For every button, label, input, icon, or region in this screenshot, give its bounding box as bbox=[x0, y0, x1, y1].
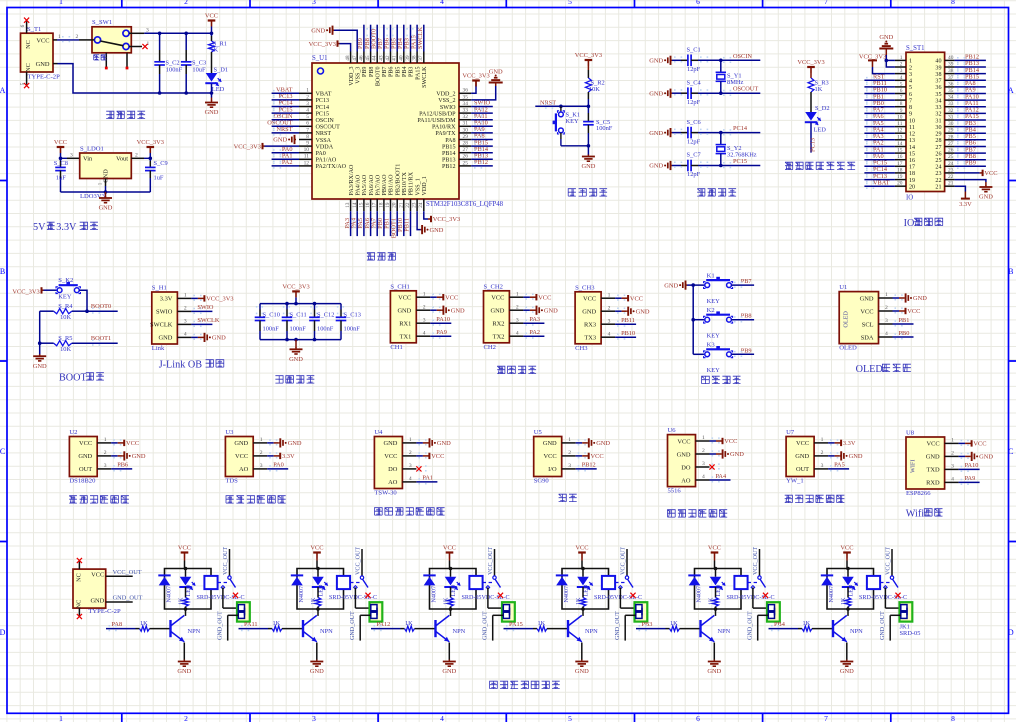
LED S_D1 bbox=[205, 66, 228, 93]
junction filter rail a bbox=[285, 302, 289, 306]
net PB0 U1 pin4 bbox=[893, 330, 914, 337]
LED relay PA11 bbox=[312, 569, 328, 597]
svg-text:PA1: PA1 bbox=[422, 475, 433, 482]
ground U2 pin2 bbox=[111, 451, 146, 460]
svg-text:32: 32 bbox=[463, 114, 469, 120]
svg-text:NC: NC bbox=[76, 600, 83, 609]
net PA6 U1 bottom pin 16 bbox=[364, 211, 371, 236]
svg-text:22: 22 bbox=[935, 178, 941, 184]
svg-text:S_C11: S_C11 bbox=[290, 311, 307, 318]
svg-text:OSCOUT: OSCOUT bbox=[316, 125, 341, 131]
svg-text:LED: LED bbox=[584, 584, 590, 596]
wire relay loop PB3 bbox=[695, 569, 742, 610]
net PA1 ST1 pin 15 bbox=[864, 146, 895, 155]
svg-text:2: 2 bbox=[608, 305, 611, 311]
caption 水质检测模块 bbox=[226, 495, 234, 503]
net PB1 ST1 pin 7 bbox=[864, 93, 895, 102]
svg-text:PB6: PB6 bbox=[389, 67, 395, 78]
svg-text:1: 1 bbox=[423, 291, 426, 297]
svg-text:16: 16 bbox=[897, 154, 903, 160]
ground power GND bbox=[211, 101, 213, 103]
svg-text:8: 8 bbox=[306, 134, 309, 140]
relay coil SRD-05VDC-SL-C PA12 bbox=[462, 576, 510, 601]
svg-text:GND_OUT: GND_OUT bbox=[483, 611, 489, 640]
key K1 KEY bbox=[704, 272, 733, 304]
svg-text:S_C9: S_C9 bbox=[154, 160, 168, 167]
svg-text:KEY: KEY bbox=[58, 293, 72, 300]
svg-text:TX2: TX2 bbox=[493, 334, 505, 341]
svg-text:GND: GND bbox=[707, 668, 721, 675]
svg-text:5516: 5516 bbox=[668, 488, 682, 495]
caption 继电器控制电路 bbox=[490, 681, 498, 689]
svg-text:25: 25 bbox=[948, 154, 954, 160]
regulator S_LDO1 LDO3V3 bbox=[80, 146, 132, 200]
ground U8 pin2 bbox=[959, 452, 994, 461]
svg-text:Vout: Vout bbox=[116, 156, 128, 163]
svg-text:46: 46 bbox=[358, 55, 364, 61]
resistor 1K LED PA11 bbox=[311, 587, 321, 609]
svg-text:PB6: PB6 bbox=[117, 462, 128, 469]
net PA3 U1 bottom pin 13 bbox=[344, 211, 351, 236]
svg-text:36: 36 bbox=[463, 88, 469, 94]
svg-text:GND: GND bbox=[384, 440, 398, 447]
svg-text:PA2: PA2 bbox=[282, 159, 293, 166]
svg-text:S_H1: S_H1 bbox=[152, 285, 167, 292]
junction VCC rail R1 bbox=[210, 32, 214, 36]
svg-text:S_C10: S_C10 bbox=[263, 311, 280, 318]
junction filter rail c bbox=[294, 302, 298, 306]
LED S_D2 bbox=[805, 105, 830, 134]
svg-text:PA1/AO: PA1/AO bbox=[316, 158, 337, 164]
resistor S_R5 10K bbox=[40, 335, 73, 353]
svg-text:3: 3 bbox=[184, 319, 187, 325]
svg-text:11: 11 bbox=[909, 125, 915, 131]
power VCC_3V3 U1 VDD_1 bbox=[424, 211, 460, 223]
svg-text:1: 1 bbox=[58, 34, 61, 40]
net PB11 S_CH3 pin3 bbox=[615, 317, 636, 324]
svg-text:PA9: PA9 bbox=[436, 329, 447, 336]
net PB9 ST1 pin 24 bbox=[955, 160, 986, 169]
net PA2 ST1 pin 14 bbox=[864, 140, 895, 149]
caption 舵机 bbox=[559, 494, 567, 502]
resistor 1K LED PA12 bbox=[444, 587, 454, 609]
svg-text:5: 5 bbox=[909, 85, 912, 91]
net PA7 ST1 pin 9 bbox=[864, 107, 895, 116]
svg-text:27: 27 bbox=[948, 141, 954, 147]
svg-text:100nF: 100nF bbox=[596, 125, 613, 132]
net PC13 ST1 pin 19 bbox=[864, 173, 895, 182]
net PC13 indicator bbox=[810, 123, 817, 153]
svg-text:31: 31 bbox=[935, 118, 941, 124]
svg-text:1: 1 bbox=[900, 55, 903, 61]
svg-text:4: 4 bbox=[702, 474, 705, 480]
ground S_CH3 pin2 bbox=[615, 307, 650, 316]
svg-text:U4: U4 bbox=[374, 429, 383, 436]
power VCC relay PB3 bbox=[708, 545, 721, 569]
net PA2 S_CH2 pin4 bbox=[523, 329, 544, 336]
net PA15 ST1 pin 31 bbox=[955, 113, 986, 122]
svg-text:GND: GND bbox=[730, 451, 744, 458]
power 3.3V U3 pin2 bbox=[267, 453, 295, 460]
svg-text:1: 1 bbox=[260, 437, 263, 443]
svg-text:PA8: PA8 bbox=[112, 621, 123, 628]
power VCC relay PA12 bbox=[443, 545, 456, 569]
junction LDO Vin bbox=[59, 157, 63, 161]
svg-text:GND: GND bbox=[437, 440, 451, 447]
svg-text:PB4: PB4 bbox=[774, 621, 786, 628]
relay contact PB3 bbox=[748, 547, 766, 590]
svg-text:1K: 1K bbox=[140, 620, 148, 627]
junction C5 bottom bbox=[587, 144, 591, 148]
wire filter bottom rail bbox=[260, 339, 341, 341]
svg-text:PA11/USB/DM: PA11/USB/DM bbox=[417, 118, 456, 124]
relay contact PB4 bbox=[880, 547, 898, 590]
svg-text:3: 3 bbox=[409, 463, 412, 469]
net GND_OUT wire PA15 bbox=[615, 611, 636, 641]
net BOOT1 bbox=[72, 335, 118, 345]
net GND_OUT wire PA11 bbox=[350, 611, 371, 641]
caption 滤波电路 bbox=[275, 375, 283, 383]
transistor NPN PA15 bbox=[568, 609, 598, 642]
svg-text:1K: 1K bbox=[179, 597, 185, 605]
svg-text:LED: LED bbox=[716, 584, 722, 596]
svg-text:GND_OUT: GND_OUT bbox=[218, 611, 224, 640]
svg-text:PB14: PB14 bbox=[442, 151, 456, 157]
svg-text:LED: LED bbox=[319, 584, 325, 596]
net PA6 ST1 pin 10 bbox=[864, 113, 895, 122]
svg-text:4: 4 bbox=[440, 0, 444, 6]
svg-text:6: 6 bbox=[900, 88, 903, 94]
ground relay PA11 bbox=[316, 660, 318, 662]
svg-text:J-Link OB: J-Link OB bbox=[159, 360, 203, 371]
svg-text:GND: GND bbox=[288, 440, 302, 447]
svg-text:1K: 1K bbox=[444, 597, 450, 605]
svg-text:PB11: PB11 bbox=[404, 218, 411, 232]
svg-text:PB8: PB8 bbox=[369, 67, 375, 78]
svg-text:VCC: VCC bbox=[36, 37, 49, 44]
caption 浑浊度检测模块 bbox=[375, 507, 383, 515]
junction PC14 bbox=[719, 131, 723, 135]
power VCC_3V3 U1 VDD_2 bbox=[462, 73, 489, 94]
caption 程序运行指示灯 bbox=[785, 162, 793, 170]
svg-text:3.3V: 3.3V bbox=[56, 222, 77, 233]
svg-text:17: 17 bbox=[372, 202, 378, 208]
svg-text:1: 1 bbox=[909, 59, 912, 65]
svg-text:34: 34 bbox=[935, 98, 941, 104]
svg-text:23: 23 bbox=[935, 171, 941, 177]
net PB8 key K2 bbox=[731, 313, 754, 322]
resistor S_R2 10K bbox=[586, 70, 605, 106]
svg-text:3.3V: 3.3V bbox=[282, 453, 295, 460]
net PA4 ST1 pin 12 bbox=[864, 126, 895, 135]
no-connect T1 top pin bbox=[24, 18, 29, 23]
label JK1 SRD-05 bbox=[900, 624, 921, 638]
wire relay loop PA8 bbox=[165, 569, 212, 610]
svg-text:VCC: VCC bbox=[575, 545, 588, 552]
svg-text:PB9: PB9 bbox=[741, 347, 752, 354]
svg-text:LED: LED bbox=[849, 584, 855, 596]
svg-text:34: 34 bbox=[948, 95, 954, 101]
svg-text:5V: 5V bbox=[33, 222, 46, 233]
svg-text:NPN: NPN bbox=[585, 628, 598, 635]
net VBAT ST1 pin 20 bbox=[864, 179, 895, 188]
net PB1 U1 pin3 bbox=[893, 317, 914, 324]
svg-text:22: 22 bbox=[948, 174, 954, 180]
svg-text:OUT: OUT bbox=[79, 466, 92, 473]
svg-text:1: 1 bbox=[59, 0, 63, 6]
wire LDO GND stem bbox=[105, 186, 107, 192]
svg-text:3: 3 bbox=[909, 72, 912, 78]
net PC13 U1 left pin 2 bbox=[272, 93, 299, 102]
junction C3 bottom bbox=[184, 91, 188, 95]
svg-text:KEY: KEY bbox=[707, 332, 721, 339]
svg-text:2: 2 bbox=[568, 450, 571, 456]
svg-text:A: A bbox=[0, 86, 6, 95]
svg-text:PB2/BOOT1: PB2/BOOT1 bbox=[395, 164, 401, 196]
svg-text:16: 16 bbox=[365, 202, 371, 208]
svg-text:45: 45 bbox=[365, 55, 371, 61]
power 3.3V ST1 pin21 bbox=[955, 186, 972, 208]
svg-text:19: 19 bbox=[909, 178, 915, 184]
key S_K2 KEY bbox=[56, 277, 87, 311]
net OSCOUT bbox=[721, 86, 761, 96]
svg-text:PB7: PB7 bbox=[741, 278, 752, 285]
net PB12 U5 pin3 bbox=[576, 462, 597, 469]
svg-text:2: 2 bbox=[184, 306, 187, 312]
resistor S_R1 1K bbox=[209, 33, 227, 73]
net OSCIN U1 left pin 5 bbox=[272, 113, 299, 122]
svg-text:NC: NC bbox=[25, 63, 32, 72]
svg-text:GND: GND bbox=[649, 130, 663, 137]
net BOOT0 bbox=[87, 303, 118, 313]
svg-text:PC14: PC14 bbox=[316, 105, 330, 111]
svg-text:PB10: PB10 bbox=[621, 330, 635, 337]
svg-text:GND: GND bbox=[677, 451, 691, 458]
svg-text:1K: 1K bbox=[815, 86, 823, 93]
net PA4 U1 bottom pin 14 bbox=[350, 211, 359, 236]
svg-text:VDD_3: VDD_3 bbox=[349, 67, 355, 86]
caption 串口电路 bbox=[497, 366, 505, 374]
svg-text:6: 6 bbox=[909, 92, 912, 98]
junction relay bottom rail PB3 bbox=[714, 607, 718, 611]
svg-text:S_C6: S_C6 bbox=[687, 119, 701, 126]
svg-text:GND: GND bbox=[397, 308, 411, 315]
svg-text:SDA: SDA bbox=[861, 334, 874, 341]
wire emitter to ground PA12 bbox=[448, 643, 450, 661]
capacitor S_C9 1uF bbox=[145, 158, 168, 192]
diode N4007 flyback PB4 bbox=[821, 575, 835, 602]
svg-text:VCC: VCC bbox=[984, 170, 997, 177]
svg-text:VCC: VCC bbox=[91, 572, 104, 579]
svg-text:13: 13 bbox=[909, 138, 915, 144]
svg-text:PB11/RX: PB11/RX bbox=[409, 171, 415, 195]
svg-text:U5: U5 bbox=[534, 429, 543, 436]
junction NRST cap bbox=[587, 105, 591, 109]
net PA10 ST1 pin 34 bbox=[955, 93, 986, 102]
ground U7 pin2 bbox=[828, 451, 863, 460]
svg-text:VCC: VCC bbox=[907, 308, 920, 315]
svg-text:25: 25 bbox=[935, 158, 941, 164]
crystal S_Y1 8MHz bbox=[716, 60, 744, 93]
svg-text:5: 5 bbox=[568, 714, 572, 722]
svg-text:NPN: NPN bbox=[718, 628, 731, 635]
svg-text:3: 3 bbox=[951, 464, 954, 470]
svg-text:NRST: NRST bbox=[276, 126, 292, 133]
svg-text:15: 15 bbox=[909, 151, 915, 157]
svg-text:2: 2 bbox=[885, 305, 888, 311]
svg-text:11: 11 bbox=[897, 121, 902, 127]
svg-text:PA12: PA12 bbox=[377, 621, 391, 628]
svg-text:3: 3 bbox=[312, 0, 316, 6]
net GND_OUT T2 bbox=[106, 595, 143, 603]
wire relay NC to connector PB3 bbox=[753, 587, 768, 608]
svg-text:48: 48 bbox=[345, 55, 351, 61]
svg-text:3: 3 bbox=[885, 318, 888, 324]
relay contact PA11 bbox=[350, 547, 368, 590]
junction keys rail K2 bbox=[691, 318, 695, 322]
transistor NPN PB4 bbox=[833, 609, 863, 642]
svg-text:8MHz: 8MHz bbox=[727, 79, 743, 86]
svg-text:23: 23 bbox=[412, 202, 418, 208]
svg-text:32: 32 bbox=[935, 112, 941, 118]
svg-text:1: 1 bbox=[951, 438, 954, 444]
net PB6 U2 pin3 bbox=[111, 462, 132, 469]
svg-text:SWCLK: SWCLK bbox=[150, 322, 173, 329]
svg-text:3: 3 bbox=[423, 317, 426, 323]
svg-text:B: B bbox=[0, 267, 5, 276]
net PA11 input bbox=[239, 621, 273, 630]
svg-text:VCC_OUT: VCC_OUT bbox=[113, 569, 142, 576]
svg-text:1: 1 bbox=[98, 182, 104, 185]
svg-text:2: 2 bbox=[516, 304, 519, 310]
svg-text:VCC_3V3: VCC_3V3 bbox=[462, 73, 489, 80]
svg-text:13: 13 bbox=[897, 134, 903, 140]
svg-text:GND: GND bbox=[840, 668, 854, 675]
wire relay NC to connector PA11 bbox=[355, 587, 370, 608]
svg-text:3: 3 bbox=[516, 317, 519, 323]
net PB8 U1 top pin 45 bbox=[364, 25, 373, 52]
svg-text:N4007: N4007 bbox=[564, 586, 570, 603]
caption 按键电路 bbox=[702, 376, 710, 384]
power VCC relay PA11 bbox=[310, 545, 323, 569]
svg-text:1: 1 bbox=[568, 437, 571, 443]
svg-text:VDD_2: VDD_2 bbox=[436, 92, 455, 98]
module S_H1 Link bbox=[150, 285, 203, 353]
net PC15 bbox=[721, 158, 761, 168]
svg-text:S_C12: S_C12 bbox=[317, 311, 334, 318]
svg-text:1K: 1K bbox=[210, 46, 218, 53]
svg-text:PA2/TX/AO: PA2/TX/AO bbox=[316, 164, 347, 170]
svg-text:S_U1: S_U1 bbox=[312, 55, 328, 62]
LED relay PA12 bbox=[444, 569, 460, 597]
svg-text:VCC: VCC bbox=[445, 294, 458, 301]
svg-text:2: 2 bbox=[821, 450, 824, 456]
net PA0 U3 pin3 bbox=[267, 462, 288, 469]
svg-text:12pF: 12pF bbox=[687, 99, 701, 106]
resistor 1K LED PA15 bbox=[576, 587, 586, 609]
svg-text:43: 43 bbox=[378, 55, 384, 61]
svg-text:STM32F103C8T6_LQFP48: STM32F103C8T6_LQFP48 bbox=[426, 201, 504, 208]
svg-text:GND: GND bbox=[649, 90, 663, 97]
svg-text:1K: 1K bbox=[311, 597, 317, 605]
no-connect T2 top bbox=[77, 558, 82, 563]
svg-text:TYPE-C-2P: TYPE-C-2P bbox=[28, 73, 61, 80]
svg-text:PB13: PB13 bbox=[442, 158, 456, 164]
svg-text:1: 1 bbox=[409, 437, 412, 443]
junction relay top rail PB3 bbox=[714, 567, 718, 571]
svg-text:VCC_3V3: VCC_3V3 bbox=[137, 139, 164, 146]
resistor 1K LED PB3 bbox=[709, 587, 719, 609]
svg-text:K3: K3 bbox=[707, 342, 716, 349]
svg-text:1K: 1K bbox=[538, 620, 546, 627]
resistor 1K base PA12 bbox=[405, 620, 436, 631]
svg-text:TSW-30: TSW-30 bbox=[374, 490, 397, 497]
svg-text:SWCLK: SWCLK bbox=[417, 27, 424, 49]
net PB4 ST1 pin 29 bbox=[955, 126, 986, 135]
svg-text:GND: GND bbox=[311, 27, 325, 34]
svg-text:12: 12 bbox=[304, 160, 310, 166]
svg-text:S_CH1: S_CH1 bbox=[390, 283, 409, 290]
svg-text:TYPE-C-2P: TYPE-C-2P bbox=[88, 608, 121, 615]
power VCC relay PA15 bbox=[575, 545, 588, 569]
svg-text:VCC: VCC bbox=[973, 441, 986, 448]
svg-text:OSCIN: OSCIN bbox=[316, 118, 335, 124]
svg-text:32.768KHz: 32.768KHz bbox=[727, 151, 757, 158]
svg-text:NPN: NPN bbox=[453, 628, 466, 635]
svg-text:GND: GND bbox=[491, 308, 505, 315]
svg-text:3.3V: 3.3V bbox=[959, 201, 972, 208]
resistor 1K LED PB4 bbox=[841, 587, 851, 609]
net PB7 key K1 bbox=[731, 278, 754, 287]
svg-text:2: 2 bbox=[104, 450, 107, 456]
net OSCIN bbox=[721, 53, 761, 63]
net PB5 ST1 pin 28 bbox=[955, 133, 986, 142]
net PB15 U1 right pin 28 bbox=[471, 139, 493, 148]
svg-text:3: 3 bbox=[702, 461, 705, 467]
junction OSCIN bbox=[719, 59, 723, 63]
ground relay PA12 bbox=[448, 660, 450, 662]
svg-text:26: 26 bbox=[935, 151, 941, 157]
net RST ST1 pin 4 bbox=[864, 74, 895, 83]
svg-text:17: 17 bbox=[909, 165, 915, 171]
svg-text:AO: AO bbox=[681, 477, 691, 484]
header S_ST1 IO bbox=[895, 45, 955, 202]
switch S_SW1 bbox=[79, 19, 150, 67]
net PA2 U1 left pin 12 bbox=[272, 159, 299, 168]
svg-text:21: 21 bbox=[948, 181, 954, 187]
svg-text:PB12: PB12 bbox=[582, 462, 596, 469]
svg-text:24: 24 bbox=[935, 165, 941, 171]
net PA1 U1 left pin 11 bbox=[272, 153, 299, 162]
ground U5 pin1 bbox=[576, 438, 611, 447]
power 3.3V U7 pin1 bbox=[828, 440, 856, 447]
svg-text:3: 3 bbox=[104, 463, 107, 469]
resistor 1K base PA8 bbox=[140, 620, 171, 631]
ground S_H1 pin4 bbox=[191, 333, 226, 342]
svg-text:100nF: 100nF bbox=[317, 326, 334, 333]
svg-text:VCC: VCC bbox=[677, 438, 690, 445]
wire filter top rail bbox=[260, 303, 341, 305]
svg-text:29: 29 bbox=[463, 134, 469, 140]
relay coil SRD-05VDC-SL-C PB3 bbox=[727, 576, 775, 601]
svg-text:VCC: VCC bbox=[235, 453, 248, 460]
junction LDO Vout bbox=[149, 157, 153, 161]
wire T1.GND down to rail bbox=[53, 64, 212, 93]
capacitor S_C13 100nF bbox=[336, 304, 361, 340]
svg-text:I/O: I/O bbox=[548, 466, 557, 473]
resistor S_R3 1K bbox=[808, 78, 829, 112]
ground ST1 top GND bbox=[879, 34, 895, 67]
